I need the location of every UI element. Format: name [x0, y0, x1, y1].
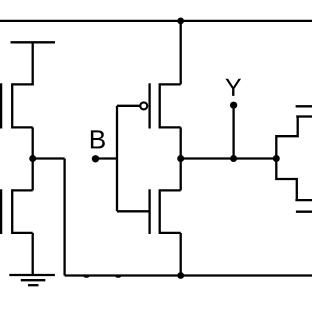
- wire: right node down leg: [276, 159, 297, 201]
- wire: M3 drain down to output node: [180, 127, 182, 159]
- transistor M3 gate bar: [148, 83, 150, 128]
- ground bar 2: [21, 279, 46, 281]
- transistor M6 gate bar: [296, 211, 312, 213]
- wire: vertical down at x=65: [63, 159, 65, 276]
- transistor M2 (left NMOS) trunk from node nA: [32, 157, 34, 190]
- transistor M4 bottom lead: [160, 232, 181, 234]
- wire: Y branch vertical: [232, 105, 234, 158]
- wire: M1 drain down to node nA: [32, 127, 34, 159]
- transistor M4 top lead: [160, 189, 181, 191]
- transistor M1 bottom lead: [12, 126, 33, 128]
- power VDD bar top-left: [11, 41, 56, 43]
- transistor M5 gate bar: [296, 105, 312, 107]
- transistor M2 bottom lead: [12, 232, 33, 234]
- label B: [91, 130, 105, 148]
- ground bar 1: [9, 274, 55, 276]
- transistor M4 (middle NMOS) gate bar: [148, 189, 150, 234]
- artifact nub on bottom rail left: [84, 275, 90, 278]
- ground bar 3: [28, 284, 39, 286]
- transistor M4 channel bar: [159, 189, 161, 234]
- wire: node nA to right: [33, 157, 65, 159]
- transistor M1 (left PMOS) top lead: [12, 83, 33, 85]
- junction dot: Y terminal: [230, 102, 237, 109]
- transistor M2 channel bar: [11, 189, 13, 234]
- junction dot: Y branch on output wire: [230, 155, 237, 162]
- transistor M3 top lead: [160, 83, 181, 85]
- wire: VDD stem to M1 source: [32, 42, 34, 85]
- wire: input A top rail: [0, 20, 312, 22]
- transistor M3 channel bar: [159, 83, 161, 128]
- junction dot: B input terminal: [92, 155, 99, 162]
- transistor M2 top lead: [12, 189, 33, 191]
- wire: bottom rail: [65, 274, 312, 276]
- transistor M3 (middle PMOS) gate bubble: [140, 102, 147, 109]
- wire: M3 gate wire to bubble: [117, 105, 140, 107]
- wire: right node up leg: [276, 117, 297, 159]
- wire: M4 source down to bottom rail: [180, 233, 182, 276]
- wire: B gate trunk vertical: [116, 106, 118, 212]
- wire: B stub: [96, 157, 118, 159]
- transistor M2 gate bar (cut at left edge): [0, 189, 2, 234]
- wire: M4 gate wire: [117, 210, 150, 212]
- wire: M4 drain up to output node: [180, 157, 182, 190]
- wire: output node horizontal: [181, 157, 277, 159]
- junction dot: output node at M3/M4 drains: [177, 155, 184, 162]
- transistor M1 gate bar (cut at left edge): [0, 83, 2, 128]
- transistor M5 (top-right) channel bar: [296, 115, 312, 117]
- junction dot: right node: [273, 155, 280, 162]
- junction dot: A rail / M3 source: [177, 18, 184, 25]
- transistor M6 (bottom-right) channel bar: [295, 199, 312, 201]
- transistor M3 bottom lead: [160, 126, 181, 128]
- wire: M2 source down to ground: [32, 233, 34, 275]
- transistor M1 channel bar: [11, 83, 13, 128]
- label Y: [225, 79, 241, 96]
- wire: M3 source up to A rail: [180, 21, 182, 85]
- junction dot: node nA: [29, 155, 36, 162]
- artifact nub on bottom rail right: [115, 275, 121, 278]
- junction dot: M4 source on bottom rail: [177, 272, 184, 279]
